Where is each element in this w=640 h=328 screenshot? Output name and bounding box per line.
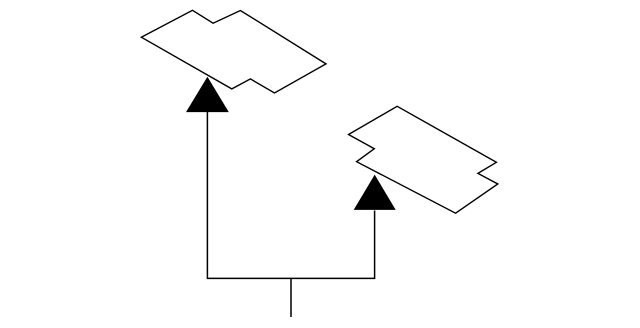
torn sheet S2 (lower-right slanted sheet with zigzag edges) bbox=[349, 106, 498, 213]
wire: center stub dropping from bottom bar bbox=[290, 278, 292, 317]
arrowhead A2 (solid triangle pointing at sheet S2) bbox=[354, 175, 395, 209]
wire: left riser, bottom bar, right riser (connector bracket) bbox=[207, 111, 374, 279]
torn sheet S1 (upper-left slanted sheet with zigzag edges) bbox=[141, 10, 326, 93]
arrowhead A1 (solid triangle pointing at sheet S1) bbox=[187, 78, 228, 112]
